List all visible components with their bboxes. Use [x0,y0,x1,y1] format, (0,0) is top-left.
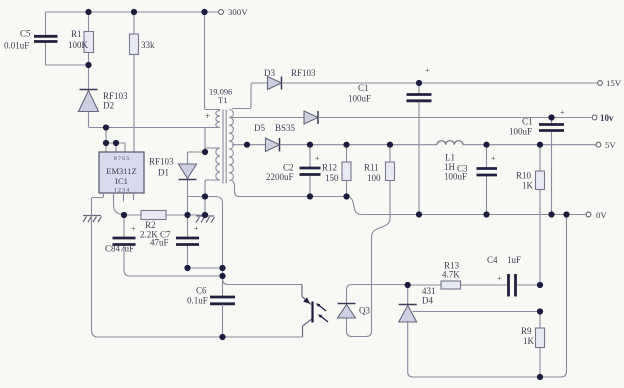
primary winding [216,111,220,128]
svg-text:R1: R1 [71,29,82,39]
aux winding [216,148,220,180]
capacitor C6 [187,286,235,338]
core [223,110,226,184]
capacitor C2 2200uF [266,145,321,197]
svg-text:RF103: RF103 [103,91,128,101]
svg-text:2200uF: 2200uF [266,172,294,182]
shunt regulator D4 431 [399,285,436,377]
svg-text:RF103: RF103 [291,68,316,78]
opto light arrows [316,303,328,322]
capacitor C5 [4,12,58,65]
svg-text:R9: R9 [521,326,532,336]
svg-text:100uF: 100uF [348,94,371,104]
wire D4 reference [413,311,541,313]
svg-text:RF103: RF103 [149,157,174,167]
LED Q3 [338,285,408,319]
svg-text:1uF: 1uF [507,255,521,265]
svg-text:Q3: Q3 [359,306,370,316]
wire IC top pins [106,128,125,153]
svg-text:4.7K: 4.7K [442,270,460,280]
wire 10v rail [318,117,591,119]
svg-text:+: + [491,154,496,163]
secondary winding [229,110,233,181]
wire 5V rail right [463,144,596,146]
svg-text:100: 100 [367,173,381,183]
svg-text:C1: C1 [358,83,369,93]
svg-text:C1: C1 [522,117,533,127]
capacitor C4 1uF [487,255,540,297]
capacitor C8 47uF [105,215,223,276]
svg-text:5V: 5V [605,140,616,150]
svg-text:L1: L1 [445,153,455,163]
resistor R9 [521,312,545,378]
resistor R11 [364,145,395,183]
svg-text:D1: D1 [158,168,169,178]
resistor R13 [408,261,508,290]
svg-text:+: + [205,111,210,121]
svg-text:300V: 300V [228,7,248,17]
wire primary ground to C6 feedback column [205,197,223,297]
capacitor C1 100uF (15V) [348,66,432,215]
wire IC pin1 to ground [92,193,104,215]
svg-text:BS35: BS35 [275,123,296,133]
wire drain node (D2 to primary bottom) [89,126,219,128]
wire 5V rail left [280,144,438,146]
wire secondary bottom return to 0V rail [232,181,586,215]
svg-text:150: 150 [325,173,339,183]
transformer T1 [205,87,233,197]
svg-text:1K: 1K [522,181,534,191]
svg-text:1H: 1H [444,162,456,172]
svg-text:R10: R10 [516,171,532,181]
svg-text:8 7 6 5: 8 7 6 5 [114,156,129,162]
resistor R10 [516,145,545,285]
wire IC pin2 pin3 to R2 left node [114,193,125,215]
svg-text:+: + [194,224,199,233]
svg-text:47uF: 47uF [150,238,169,248]
svg-text:+: + [425,66,430,75]
svg-text:+: + [497,274,502,283]
svg-text:D3: D3 [264,68,275,78]
wire 15V feed from secondary top [232,83,268,109]
capacitor C7 47uF [176,215,223,268]
svg-text:D4: D4 [422,296,433,306]
terminal 15V [598,78,622,88]
svg-text:431: 431 [422,286,436,296]
ground primary left [83,216,102,223]
wire IC pin4 stub [133,193,135,200]
svg-text:100uF: 100uF [444,172,467,182]
svg-text:1K: 1K [523,336,535,346]
wire 300V to transformer primary [205,12,221,110]
wire 5V feed from secondary tap [232,144,266,146]
optocoupler phototransistor [302,285,313,338]
svg-text:C4: C4 [487,255,498,265]
svg-text:10v: 10v [600,113,614,123]
svg-text:100uF: 100uF [509,127,532,137]
capacitor C3 100uF [444,145,497,215]
wire aux bottom lead [205,180,220,197]
svg-text:D2: D2 [103,101,114,111]
svg-text:IC1: IC1 [115,176,128,186]
wire 300V top rail [46,11,219,13]
terminal 10v [592,113,614,123]
diode D1 RF103 [149,152,205,215]
svg-text:T1: T1 [218,95,227,105]
svg-text:C847uF: C847uF [105,244,134,254]
diode D2 RF103 [79,65,129,126]
diode D3 RF103 [264,68,316,90]
wire bottom left return [92,215,303,337]
terminal 5V [596,140,616,150]
svg-text:R11: R11 [364,163,379,173]
resistor R2 [124,211,188,248]
svg-text:C2: C2 [283,163,294,173]
svg-text:C6: C6 [196,286,207,296]
svg-text:15V: 15V [606,78,622,88]
svg-text:100K: 100K [68,40,89,50]
svg-text:+: + [131,225,136,234]
svg-text:D5: D5 [254,123,265,133]
wire 10v feed from secondary tap [232,117,304,119]
diode D6 (10v rectifier) [304,111,318,124]
svg-text:+: + [560,108,565,117]
svg-text:0V: 0V [596,210,607,220]
wire primary bottom lead [204,128,206,153]
diode D5 BS35 [254,123,296,152]
inductor L1 [437,141,463,172]
wire 15V rail [282,82,598,84]
svg-text:33k: 33k [141,40,155,50]
wire feedback column to opto collector [223,279,303,285]
resistor R4 33k [130,12,156,152]
svg-text:R2: R2 [145,220,156,230]
svg-text:1 2 3 4: 1 2 3 4 [114,188,129,194]
resistor R1 [68,12,94,65]
terminal 0V [586,210,607,220]
wire R2 right to aux ground node [188,197,206,216]
svg-text:0.1uF: 0.1uF [187,296,208,306]
svg-text:C5: C5 [20,29,31,39]
resistor R12 [322,145,351,197]
IC U1 EM311Z [99,152,144,194]
svg-text:EM311Z: EM311Z [106,166,136,176]
wire bottom loop to 0V [413,215,567,378]
terminal 300V [219,7,249,17]
wire aux top lead [205,148,220,152]
svg-text:+: + [315,154,320,163]
capacitor C1 100uF (10v) [509,108,565,215]
svg-text:0.01uF: 0.01uF [4,41,29,51]
wire C5 to R1 bottom node [46,64,89,66]
ground primary right [196,197,215,223]
wire Q3 anode to R11 bottom [347,181,391,337]
svg-text:R12: R12 [322,163,337,173]
